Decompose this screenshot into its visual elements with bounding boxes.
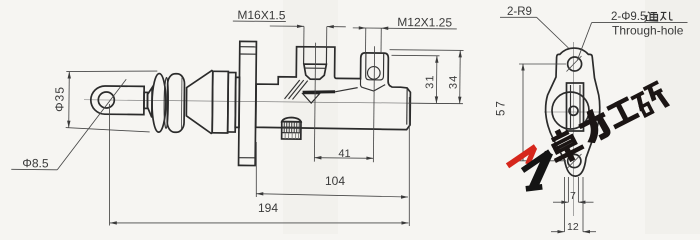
- watermark Z logo red part: [508, 147, 536, 166]
- bottom hole tick: [568, 154, 582, 168]
- watermark chinese char kuang: [630, 81, 670, 119]
- dim 57 ext bottom: [519, 160, 566, 162]
- boot cone: [186, 70, 213, 133]
- svg-text:41: 41: [338, 148, 350, 160]
- char kong: [660, 12, 672, 21]
- M16 dim line right: [327, 26, 346, 28]
- rod step: [144, 92, 148, 108]
- top hole: [568, 57, 582, 71]
- bleeder cap: [282, 117, 301, 121]
- svg-text:57: 57: [496, 99, 508, 116]
- M16 dim line left: [270, 25, 304, 27]
- fluid level heavy line: [303, 91, 336, 92]
- collar: [235, 77, 239, 127]
- bottom hole: [568, 154, 581, 167]
- valve seat V: [362, 84, 385, 91]
- watermark chinese char zhuo: [543, 123, 586, 167]
- cylinder front: [212, 71, 228, 133]
- body outline: [256, 46, 411, 129]
- flange outline: [546, 48, 600, 176]
- svg-text:2-Φ9.5: 2-Φ9.5: [611, 11, 646, 23]
- svg-text:M16X1.5: M16X1.5: [237, 8, 285, 23]
- dim 12 line: [551, 231, 565, 233]
- bellows mid ring: [164, 77, 169, 128]
- boss2 lower left edge: [360, 79, 362, 88]
- svg-text:Through-hole: Through-hole: [612, 24, 684, 38]
- 2-dia9.5 leader: [578, 23, 592, 60]
- flange hole line bottom: [239, 157, 256, 159]
- retainer washer: [228, 72, 236, 132]
- slot outer: [567, 83, 584, 131]
- dim 34 line: [459, 50, 462, 103]
- boot flare: [147, 87, 152, 117]
- port 2 centerline / ext for 41: [373, 46, 374, 162]
- M12 ext lines: [365, 28, 367, 53]
- slot circle: [569, 106, 578, 115]
- reservoir chute lines: [285, 80, 300, 99]
- fluid level triangle: [302, 94, 319, 104]
- port 1 centerline / ext for 41: [314, 43, 315, 162]
- mounting flange plate: [239, 41, 257, 165]
- M16 ext lines: [303, 26, 305, 46]
- svg-text:12: 12: [567, 221, 579, 233]
- 2-R9 underline: [500, 16, 537, 18]
- dim 7 line: [553, 201, 568, 203]
- dia35 dim line: [68, 72, 71, 128]
- watermark Z logo black part: [523, 152, 550, 189]
- M16 leader underline: [233, 20, 286, 23]
- char tong: [645, 12, 659, 22]
- svg-text:31: 31: [424, 74, 436, 89]
- dim 31 line: [435, 56, 437, 104]
- boss2 socket: [366, 53, 384, 80]
- flange hole line top: [240, 46, 257, 48]
- dim 41 line: [314, 157, 373, 160]
- dim 194 line: [110, 222, 409, 224]
- dia8.5 leader: [57, 78, 126, 170]
- watermark chinese char li: [575, 106, 614, 146]
- ext line nose end: [408, 97, 410, 226]
- dia35 ext bottom: [66, 128, 150, 132]
- bellows lobe 1: [152, 73, 166, 132]
- svg-text:Φ35: Φ35: [52, 86, 66, 112]
- nose chamfer face: [406, 89, 408, 125]
- svg-text:Φ8.5: Φ8.5: [22, 156, 49, 170]
- dim 57 line: [522, 64, 524, 161]
- slot inner lines: [570, 85, 572, 128]
- svg-text:194: 194: [258, 201, 278, 215]
- ext hole center: [109, 104, 111, 226]
- dim 34 ext line: [390, 49, 464, 52]
- svg-text:M12X1.25: M12X1.25: [397, 15, 452, 30]
- svg-text:34: 34: [448, 74, 460, 89]
- svg-text:7: 7: [570, 190, 576, 202]
- eyelet rod end: [91, 86, 144, 115]
- dia35 ext top: [66, 70, 157, 72]
- 2-R9 leader: [537, 17, 569, 48]
- bleeder body: [282, 122, 301, 140]
- end view horizontal centerline: [544, 111, 601, 113]
- svg-text:104: 104: [325, 174, 345, 188]
- ext lines 12: [564, 177, 566, 232]
- dia8.5 underline: [11, 168, 57, 170]
- centerline: [84, 100, 462, 104]
- M12 leader underline / dim line: [353, 28, 457, 29]
- ext line flange face: [255, 142, 257, 197]
- dim 57 ext top: [519, 63, 566, 65]
- port 1 hex plug: [304, 64, 327, 79]
- ball check: [367, 67, 380, 80]
- 2-dia9.5 underline: [592, 22, 688, 24]
- bore circle: [552, 92, 589, 129]
- ext lines 7: [567, 177, 569, 202]
- watermark chinese char gong: [605, 96, 640, 129]
- centerline ext right: [408, 102, 462, 105]
- dim 31 ext line: [391, 54, 439, 57]
- eyelet hole: [98, 92, 114, 108]
- svg-text:2-R9: 2-R9: [507, 6, 532, 18]
- end view vertical centerline: [572, 42, 574, 216]
- dim 104 line: [256, 194, 408, 197]
- bellows lobe 2 inner line: [180, 77, 183, 128]
- bellows lobe 2: [167, 74, 184, 133]
- port 1 thread lines: [303, 47, 305, 64]
- top hole tick: [567, 56, 582, 72]
